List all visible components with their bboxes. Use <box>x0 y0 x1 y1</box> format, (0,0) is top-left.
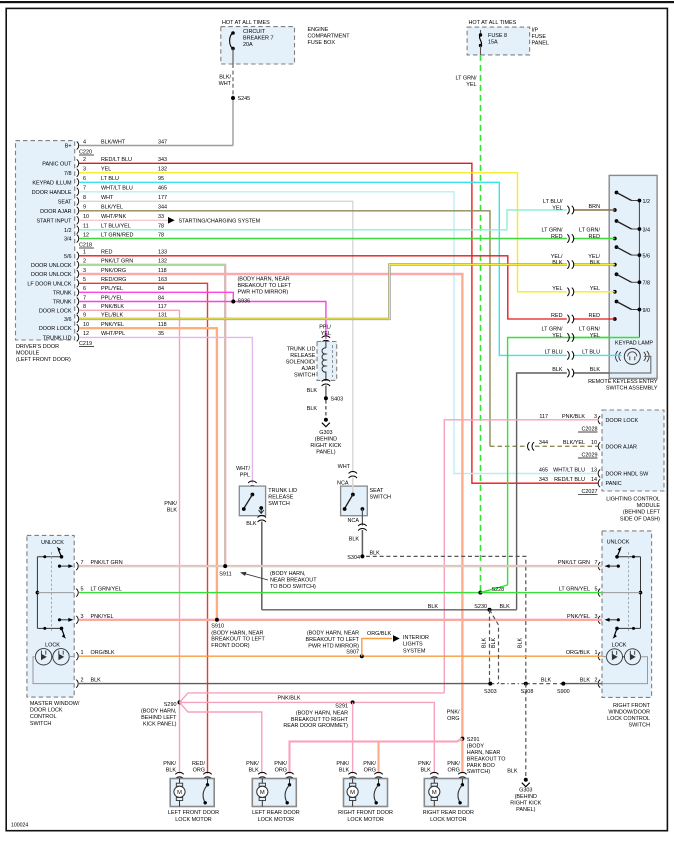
svg-text:3: 3 <box>83 167 86 173</box>
wire RED 133 to keypad 9/0 <box>79 256 567 319</box>
svg-text:G303: G303 <box>519 788 532 794</box>
wire PNK/BLK S290 to S291 to right rear motor <box>180 702 435 773</box>
pin 7 WHT/LT BLU 465 (DOOR HANDLE) <box>77 188 79 196</box>
svg-text:(BODY HARN,: (BODY HARN, <box>270 571 306 577</box>
svg-text:DOOR LOCK: DOOR LOCK <box>606 418 639 424</box>
wire BLK below seat switch to S304 <box>358 524 366 530</box>
svg-text:LT GRN/YEL: LT GRN/YEL <box>559 587 590 593</box>
svg-text:HOT AT ALL TIMES: HOT AT ALL TIMES <box>222 20 270 26</box>
svg-text:M: M <box>432 790 437 796</box>
svg-text:15A: 15A <box>488 40 498 46</box>
wire BRN inside keypad <box>573 209 615 211</box>
right switch pin 2 BLK <box>598 680 600 688</box>
wire ORG/BLK master to right switch <box>79 655 602 657</box>
pin 8 PNK/BLK 117 (DOOR LOCK) <box>77 306 79 314</box>
svg-text:(BODY HARN, NEAR: (BODY HARN, NEAR <box>211 630 263 636</box>
pin 7 PPL/YEL 84 (TRUNK) <box>77 298 79 306</box>
svg-text:RED: RED <box>551 234 563 240</box>
svg-text:BLK: BLK <box>167 507 178 513</box>
svg-text:TRUNK LID: TRUNK LID <box>43 335 72 341</box>
svg-text:NCA: NCA <box>337 480 349 486</box>
wire LT BLU inside keypad to lamp <box>573 354 622 356</box>
lighting control module (dashed box) <box>602 410 664 491</box>
node S911 <box>223 564 227 568</box>
node S290 splice <box>178 700 182 704</box>
svg-text:3: 3 <box>594 414 597 420</box>
svg-text:HARN, NEAR: HARN, NEAR <box>467 750 501 756</box>
svg-text:C218: C218 <box>79 243 92 249</box>
svg-text:RIGHT FRONT: RIGHT FRONT <box>613 703 651 709</box>
wire PNK/LT GRN 132 master to right switch <box>79 565 602 567</box>
svg-text:TRUNK LID: TRUNK LID <box>287 347 316 353</box>
svg-text:33: 33 <box>158 214 164 220</box>
svg-text:100024: 100024 <box>11 823 28 829</box>
node S230 <box>488 608 492 612</box>
node S907 and branch to interior lights system <box>360 654 364 658</box>
svg-text:RED/ORG: RED/ORG <box>101 277 126 283</box>
fuse F8 15A <box>480 30 482 35</box>
svg-text:BLK: BLK <box>541 677 552 683</box>
svg-text:ORG/BLK: ORG/BLK <box>367 631 392 637</box>
svg-text:AJAR: AJAR <box>301 366 315 372</box>
svg-text:C2027: C2027 <box>581 489 597 495</box>
svg-text:(BODY: (BODY <box>467 744 485 750</box>
svg-text:C220: C220 <box>79 150 92 156</box>
svg-text:78: 78 <box>158 224 164 230</box>
svg-text:PANEL: PANEL <box>532 41 549 47</box>
svg-text:9: 9 <box>83 205 86 211</box>
off-page arrow: STARTING/CHARGING SYSTEM <box>168 217 175 224</box>
svg-text:S291: S291 <box>467 737 480 743</box>
svg-text:5: 5 <box>83 277 86 283</box>
svg-text:WHT: WHT <box>101 195 114 201</box>
wire LT GRN/YEL into keypad (lamp feed) <box>508 338 610 586</box>
svg-text:PNK/: PNK/ <box>418 761 431 767</box>
svg-text:BLK: BLK <box>481 637 487 648</box>
svg-text:SWITCH: SWITCH <box>268 501 290 507</box>
svg-text:RIGHT KICK: RIGHT KICK <box>310 443 341 449</box>
svg-text:13: 13 <box>591 467 597 473</box>
svg-text:RED: RED <box>589 234 601 240</box>
svg-text:SWITCH: SWITCH <box>629 723 651 729</box>
pin 1 RED 133 (5/6) <box>77 252 79 260</box>
svg-text:177: 177 <box>158 195 167 201</box>
svg-text:BLK: BLK <box>552 367 563 373</box>
wire BLK/YEL 344 to LCM DOOR AJAR <box>79 211 490 446</box>
svg-text:4: 4 <box>83 139 86 145</box>
pin 11 LT BLU/YEL 78 (1/2) <box>77 226 79 234</box>
pin 12 LT GRN/RED 78 (3/4) <box>77 235 79 243</box>
svg-text:1/2: 1/2 <box>64 228 72 234</box>
svg-text:RED: RED <box>101 250 113 256</box>
svg-text:BLK/YEL: BLK/YEL <box>563 440 585 446</box>
wire PNK/LT GRN 132 to S911 <box>79 265 225 566</box>
motor M: right rear door lock motor <box>430 772 438 778</box>
wire PPL/YEL 84 (pin 7) to trunk lid release solenoid <box>79 302 326 340</box>
node S303 <box>488 682 492 686</box>
wire BLK keypad ground <box>517 373 567 610</box>
pin 3 YEL 132 (7/8) <box>77 169 79 177</box>
wire BLK trunk release switch to S230 to keypad <box>262 609 517 611</box>
svg-text:163: 163 <box>158 277 167 283</box>
svg-text:BLK/WHT: BLK/WHT <box>101 139 126 145</box>
svg-text:S245: S245 <box>238 96 251 102</box>
svg-text:2: 2 <box>595 678 598 684</box>
svg-text:S403: S403 <box>331 397 344 403</box>
svg-text:(LEFT FRONT DOOR): (LEFT FRONT DOOR) <box>16 357 71 363</box>
svg-text:SWITCH: SWITCH <box>30 721 52 727</box>
svg-text:TRUNK: TRUNK <box>53 300 72 306</box>
svg-text:344: 344 <box>539 440 548 446</box>
wire PPL/YEL 84 (pin 6) to S936 <box>79 292 233 301</box>
ground G303 (behind right kick panel, lower) <box>524 778 528 782</box>
svg-text:START INPUT: START INPUT <box>36 218 72 224</box>
node S900 <box>561 682 565 686</box>
inline connector at keypad row BLK <box>567 369 573 377</box>
keypad internal bus <box>638 201 640 338</box>
svg-text:YEL: YEL <box>590 286 600 292</box>
svg-text:NEAR BREAKOUT: NEAR BREAKOUT <box>270 577 317 583</box>
svg-text:LOCK: LOCK <box>612 642 627 648</box>
right switch pin 5 LT GRN/YEL <box>598 589 600 597</box>
svg-text:35: 35 <box>158 331 164 337</box>
pin 12 WHT/PPL 35 (TRUNK LID) <box>77 333 79 341</box>
right switch internals <box>640 557 642 629</box>
master switch pin 3 PNK/YEL <box>76 616 78 624</box>
svg-text:3/4: 3/4 <box>643 227 651 233</box>
svg-text:LT GRN/: LT GRN/ <box>579 228 600 234</box>
wire BLK (dashed) S230 to S303 <box>489 610 491 684</box>
svg-text:5/6: 5/6 <box>64 254 72 260</box>
svg-text:PANEL): PANEL) <box>516 807 535 813</box>
keypad switch 1/2 <box>613 208 617 212</box>
svg-text:B+: B+ <box>65 144 72 150</box>
svg-text:CONTROL: CONTROL <box>30 714 57 720</box>
svg-text:DOOR LOCK: DOOR LOCK <box>39 308 72 314</box>
right switch illumination lamps <box>607 649 623 665</box>
svg-text:YEL: YEL <box>552 333 562 339</box>
LCM pin 13 DOOR HNDL SW <box>598 470 600 478</box>
master switch pin 2 BLK <box>76 680 78 688</box>
svg-text:S308: S308 <box>521 689 534 695</box>
svg-text:DOOR HANDLE: DOOR HANDLE <box>32 190 72 196</box>
svg-text:DRIVER'S DOOR: DRIVER'S DOOR <box>16 344 59 350</box>
wire LT GRN/YEL master to right switch <box>79 592 602 594</box>
svg-text:PWR HTD MIRROR): PWR HTD MIRROR) <box>308 643 359 649</box>
wire PNK/ORG S291 splice fan to motors <box>290 739 463 774</box>
LCM pin 10 DOOR AJAR <box>598 442 600 450</box>
wire PNK/BLK S291 to right front motor <box>352 702 354 773</box>
svg-text:S230: S230 <box>474 604 487 610</box>
svg-text:DOOR LOCK: DOOR LOCK <box>39 326 72 332</box>
node S245 <box>232 96 234 146</box>
svg-text:1: 1 <box>81 650 84 656</box>
svg-text:7: 7 <box>83 295 86 301</box>
svg-text:SYSTEM: SYSTEM <box>403 648 426 654</box>
svg-text:BREAKOUT TO LEFT: BREAKOUT TO LEFT <box>306 637 360 643</box>
svg-text:DOOR AJAR: DOOR AJAR <box>606 444 637 450</box>
svg-text:WINDOW/DOOR: WINDOW/DOOR <box>608 709 650 715</box>
svg-text:343: 343 <box>539 477 548 483</box>
svg-text:(BEHIND: (BEHIND <box>515 794 537 800</box>
svg-text:133: 133 <box>158 250 167 256</box>
svg-text:MASTER WINDOW/: MASTER WINDOW/ <box>30 701 80 707</box>
svg-text:BLK: BLK <box>349 536 360 542</box>
wire PNK/ORG 118 to S291 splice <box>79 274 462 774</box>
inline connector at keypad row YEL <box>567 288 573 296</box>
svg-text:BLK: BLK <box>339 768 350 774</box>
wire BLK/WHT 347 (B+) <box>79 145 233 147</box>
wire WHT/PPL 35 to trunk lid release switch <box>79 337 252 483</box>
svg-text:CIRCUIT: CIRCUIT <box>243 29 266 35</box>
keypad switch 3/4 <box>613 237 617 241</box>
LCM pin 14 PANIC <box>598 479 600 487</box>
svg-text:BLK: BLK <box>491 637 497 648</box>
svg-text:KEYPAD ILLUM: KEYPAD ILLUM <box>32 180 72 186</box>
svg-text:LOCK MOTOR: LOCK MOTOR <box>430 817 467 823</box>
motor M: left front door lock motor <box>175 772 183 778</box>
pin 3 PNK/ORG 118 (DOOR UNLOCK) <box>77 270 79 278</box>
svg-text:LT GRN/: LT GRN/ <box>579 327 600 333</box>
svg-text:LIGHTS: LIGHTS <box>403 642 423 648</box>
svg-text:S290: S290 <box>164 702 177 708</box>
svg-text:C2029: C2029 <box>581 453 597 459</box>
pin 6 PPL/YEL 84 (TRUNK) <box>77 288 79 296</box>
node S910 <box>215 618 219 622</box>
svg-text:LOCK: LOCK <box>45 642 60 648</box>
svg-text:6: 6 <box>83 286 86 292</box>
svg-text:PNK/: PNK/ <box>274 761 287 767</box>
svg-text:344: 344 <box>158 205 167 211</box>
svg-text:5/6: 5/6 <box>643 253 651 259</box>
svg-text:12: 12 <box>83 331 89 337</box>
svg-text:6: 6 <box>83 176 86 182</box>
svg-text:NCA: NCA <box>348 518 360 524</box>
svg-text:347: 347 <box>158 139 167 145</box>
svg-text:7: 7 <box>83 186 86 192</box>
wire PNK/BLK S290 lower branch to left rear motor <box>180 702 262 773</box>
svg-text:LT BLU: LT BLU <box>545 349 563 355</box>
svg-text:PNK/BLK: PNK/BLK <box>562 414 585 420</box>
svg-text:BLK: BLK <box>307 388 318 394</box>
svg-text:MODULE: MODULE <box>637 503 661 509</box>
svg-text:BLK/: BLK/ <box>219 75 231 81</box>
pin 5 RED/ORG 163 (LF DOOR UNLCK) <box>77 279 79 287</box>
pin 8 WHT 177 (SEAT) <box>77 197 79 205</box>
svg-text:8: 8 <box>83 304 86 310</box>
inline connector at keypad row LT GRN/ <box>567 333 573 341</box>
svg-text:PNK/: PNK/ <box>447 761 460 767</box>
right switch pin 3 PNK/YEL <box>598 616 600 624</box>
svg-text:PNK/: PNK/ <box>336 761 349 767</box>
svg-text:WHT/LT BLU: WHT/LT BLU <box>101 186 133 192</box>
svg-text:LEFT FRONT DOOR: LEFT FRONT DOOR <box>168 810 219 816</box>
svg-text:S228: S228 <box>492 587 505 593</box>
svg-text:3/4: 3/4 <box>64 237 72 243</box>
svg-text:BREAKOUT TO: BREAKOUT TO <box>467 756 506 762</box>
wire BLK (dashed) to ground G303 <box>325 400 327 418</box>
svg-text:BLK: BLK <box>421 768 432 774</box>
master switch pin 5 LT GRN/YEL <box>76 589 78 597</box>
svg-text:KEYPAD LAMP: KEYPAD LAMP <box>615 341 653 347</box>
node S304 <box>360 554 364 558</box>
svg-text:LT GRN/: LT GRN/ <box>542 327 563 333</box>
wire PNK/YEL 118 to S910 <box>79 328 217 620</box>
right switch pin 1 ORG/BLK <box>598 652 600 660</box>
svg-text:TRUNK LID: TRUNK LID <box>268 488 297 494</box>
svg-text:BLK: BLK <box>580 678 591 684</box>
svg-text:SWITCH ASSEMBLY: SWITCH ASSEMBLY <box>606 386 658 392</box>
svg-text:BLK: BLK <box>166 768 177 774</box>
svg-text:STARTING/CHARGING SYSTEM: STARTING/CHARGING SYSTEM <box>179 219 261 225</box>
svg-text:TRUNK: TRUNK <box>53 290 72 296</box>
svg-text:8: 8 <box>83 195 86 201</box>
svg-text:BRN: BRN <box>589 204 601 210</box>
svg-text:465: 465 <box>539 467 548 473</box>
svg-text:PPL/: PPL/ <box>319 325 331 331</box>
keypad switch 9/0 <box>613 317 617 321</box>
svg-text:LOCK MOTOR: LOCK MOTOR <box>258 817 295 823</box>
svg-text:DOOR HNDL SW: DOOR HNDL SW <box>606 472 650 478</box>
svg-text:ORG: ORG <box>275 768 287 774</box>
svg-text:PNK/: PNK/ <box>246 761 259 767</box>
svg-text:WHT: WHT <box>219 81 232 87</box>
svg-text:BLK: BLK <box>370 550 381 556</box>
svg-text:KICK PANEL): KICK PANEL) <box>143 721 177 727</box>
svg-text:LT BLU: LT BLU <box>582 349 600 355</box>
svg-text:14: 14 <box>591 477 597 483</box>
motor M: right front door lock motor <box>348 772 356 778</box>
node S403 <box>324 396 328 400</box>
svg-text:(BODY HARN, NEAR: (BODY HARN, NEAR <box>238 277 290 283</box>
svg-text:DOOR LOCK: DOOR LOCK <box>30 708 63 714</box>
wire BLK (dashed) S308 to ground G303 <box>525 684 527 778</box>
svg-text:S291: S291 <box>335 704 348 710</box>
svg-text:(BODY HARN, NEAR: (BODY HARN, NEAR <box>296 710 348 716</box>
svg-text:YEL: YEL <box>101 167 111 173</box>
svg-text:1: 1 <box>83 250 86 256</box>
master switch illumination lamps <box>35 649 51 665</box>
svg-text:LT GRN/: LT GRN/ <box>456 76 477 82</box>
node S308 <box>524 682 528 686</box>
svg-text:11: 11 <box>83 224 89 230</box>
svg-text:ORG: ORG <box>364 768 376 774</box>
svg-text:BLK: BLK <box>246 521 257 527</box>
svg-text:YEL: YEL <box>552 205 562 211</box>
wire LT GRN/RED into keypad <box>573 238 615 240</box>
svg-text:1: 1 <box>595 650 598 656</box>
pin 6 LT BLU 95 (KEYPAD ILLUM) <box>77 178 79 186</box>
svg-text:84: 84 <box>158 286 164 292</box>
svg-text:SEAT: SEAT <box>370 488 384 494</box>
remote keyless entry switch assembly <box>609 175 657 378</box>
LCM pin 3 DOOR LOCK <box>598 416 600 424</box>
svg-text:SOLENOID/: SOLENOID/ <box>286 360 316 366</box>
svg-text:LOCK CONTROL: LOCK CONTROL <box>607 716 650 722</box>
svg-text:(BODY HARN,: (BODY HARN, <box>141 709 177 715</box>
svg-text:WHT/: WHT/ <box>236 466 250 472</box>
svg-text:RED/LT BLU: RED/LT BLU <box>101 157 132 163</box>
svg-text:20A: 20A <box>243 42 253 48</box>
wire LT BLU 95 to keypad lamp <box>79 182 567 355</box>
svg-text:FUSE 8: FUSE 8 <box>488 33 507 39</box>
svg-text:YEL: YEL <box>590 333 600 339</box>
svg-text:BLK: BLK <box>249 768 260 774</box>
svg-text:LF DOOR UNLCK: LF DOOR UNLCK <box>27 281 71 287</box>
svg-text:LT BLU: LT BLU <box>101 176 119 182</box>
svg-text:C2028: C2028 <box>581 427 597 433</box>
svg-text:BREAKOUT TO RIGHT: BREAKOUT TO RIGHT <box>291 717 349 723</box>
wire RED/LT BLU 343 to LCM PANIC <box>79 163 599 483</box>
svg-text:BLK: BLK <box>552 260 563 266</box>
svg-text:5: 5 <box>81 587 84 593</box>
svg-text:LT GRN/RED: LT GRN/RED <box>101 232 134 238</box>
wire BLK below solenoid <box>322 380 330 386</box>
svg-text:BEHIND LEFT: BEHIND LEFT <box>141 715 177 721</box>
svg-text:S936: S936 <box>238 298 251 304</box>
svg-text:G303: G303 <box>319 430 332 436</box>
svg-text:BLK: BLK <box>590 260 601 266</box>
svg-text:LOCK MOTOR: LOCK MOTOR <box>175 817 212 823</box>
svg-text:LIGHTING CONTROL: LIGHTING CONTROL <box>606 497 660 503</box>
svg-text:10: 10 <box>83 214 89 220</box>
svg-text:10: 10 <box>591 440 597 446</box>
svg-text:ENGINE: ENGINE <box>308 27 329 33</box>
svg-text:RELEASE: RELEASE <box>290 353 315 359</box>
wire PNK/BLK 117 to S290 <box>79 310 180 773</box>
svg-text:RED/LT BLU: RED/LT BLU <box>554 477 585 483</box>
wire RED into keypad <box>573 318 615 320</box>
right switch pin 7 PNK/LT GRN <box>598 562 600 570</box>
svg-text:(BODY HARN, NEAR: (BODY HARN, NEAR <box>307 631 359 637</box>
circuit breaker CB7 20A <box>230 33 233 49</box>
svg-text:PWR HTD MIRROR): PWR HTD MIRROR) <box>238 289 289 295</box>
svg-text:UNLOCK: UNLOCK <box>41 540 64 546</box>
master switch pin 1 ORG/BLK <box>76 652 78 660</box>
wire YEL into keypad <box>573 291 615 293</box>
svg-text:REAR DOOR GROMMET): REAR DOOR GROMMET) <box>283 723 348 729</box>
svg-text:YEL: YEL <box>466 82 476 88</box>
svg-text:117: 117 <box>539 414 548 420</box>
pin 10 PNK/YEL 118 (DOOR LOCK) <box>77 324 79 332</box>
svg-text:RIGHT KICK: RIGHT KICK <box>510 801 541 807</box>
svg-text:LEFT REAR DOOR: LEFT REAR DOOR <box>252 810 300 816</box>
svg-text:PARK BOO: PARK BOO <box>467 763 495 769</box>
svg-text:S303: S303 <box>484 689 497 695</box>
svg-text:C219: C219 <box>79 341 92 347</box>
svg-text:465: 465 <box>158 186 167 192</box>
wire RED/ORG 163 to left front door lock motor <box>79 283 208 773</box>
svg-text:(BEHIND LEFT: (BEHIND LEFT <box>623 510 661 516</box>
svg-text:ORG: ORG <box>193 768 205 774</box>
svg-text:BREAKOUT TO LEFT: BREAKOUT TO LEFT <box>238 283 292 289</box>
inline connector at keypad row LT BLU <box>567 351 573 359</box>
svg-text:WHT/PNK: WHT/PNK <box>101 214 126 220</box>
svg-text:PANIC: PANIC <box>606 481 622 487</box>
svg-text:PNK/: PNK/ <box>447 710 460 716</box>
pin 2 RED/LT BLU 343 (PANIC OUT) <box>77 159 79 167</box>
wire BLK (dashed) S230 branch to ground run <box>490 610 499 684</box>
svg-text:3/6: 3/6 <box>64 317 72 323</box>
svg-text:FRONT DOOR): FRONT DOOR) <box>211 643 249 649</box>
svg-text:COMPARTMENT: COMPARTMENT <box>308 34 351 40</box>
svg-text:95: 95 <box>158 176 164 182</box>
svg-text:7/8: 7/8 <box>643 281 651 287</box>
svg-text:ORG: ORG <box>447 716 459 722</box>
svg-text:ORG/BLK: ORG/BLK <box>91 650 116 656</box>
svg-text:PPL: PPL <box>240 472 250 478</box>
wire LT GRN/YEL connector to keypad <box>573 337 609 339</box>
